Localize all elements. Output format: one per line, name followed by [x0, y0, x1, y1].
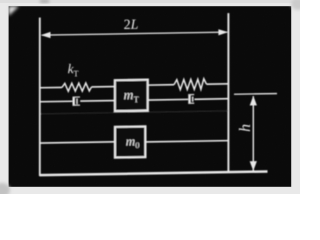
svg-text:2L: 2L — [124, 18, 139, 33]
svg-text:m: m — [124, 87, 134, 102]
svg-text:m: m — [126, 134, 135, 149]
svg-text:0: 0 — [135, 140, 139, 150]
svg-text:T: T — [73, 68, 79, 78]
svg-text:h: h — [237, 124, 254, 132]
svg-text:T: T — [134, 94, 140, 104]
